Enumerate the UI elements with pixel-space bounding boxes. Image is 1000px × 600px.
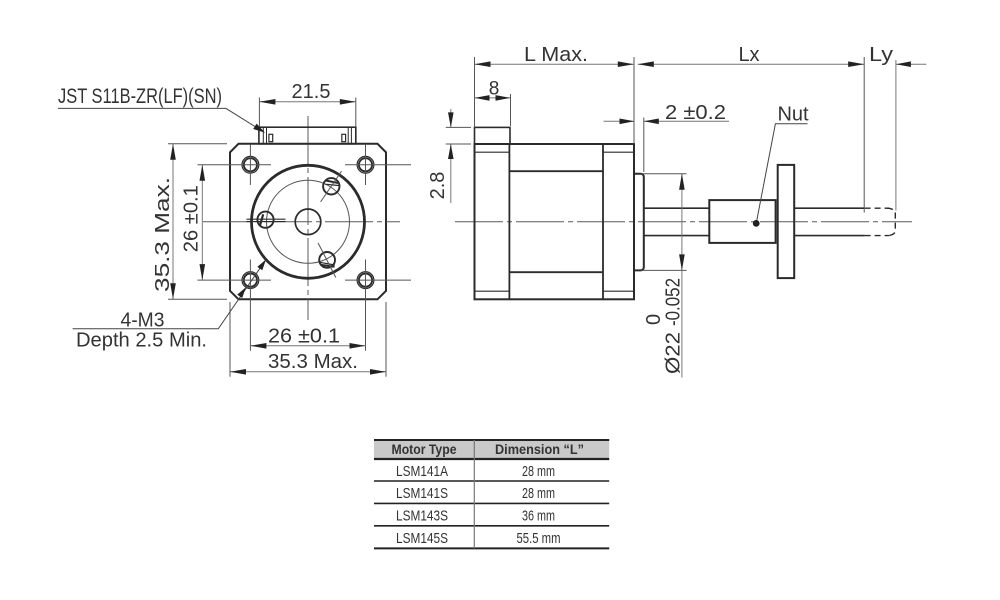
crosshair bottom-left hole [198,260,272,351]
screw head left [257,212,273,228]
pilot boss circle (thick) [252,165,365,278]
connector pin right [342,134,346,141]
front plate outline with chamfered corners [230,144,386,299]
screw slot bottom [320,262,335,265]
nut body [709,200,775,243]
svg-text:28 mm: 28 mm [522,463,555,480]
svg-text:35.3 Max.: 35.3 Max. [268,351,358,373]
svg-text:LSM145S: LSM145S [396,530,448,547]
nut flange [778,165,795,278]
dimension 2 ±0.2 [604,120,730,122]
svg-text:Dimension “L”: Dimension “L” [495,442,584,457]
screw bolt circle (thin) [267,180,350,263]
dashed screw end cap [887,208,895,235]
dimension Lx [638,63,864,65]
dimension 8 [475,97,511,99]
svg-text:0: 0 [643,314,665,325]
header separator [374,458,609,460]
dimension 35.3 Max. (left) [172,144,174,299]
horizontal centerline (side view) [455,221,912,223]
svg-text:Nut: Nut [777,104,809,126]
rear cap line [508,144,510,299]
dimension 26 ±0.1 (left) [201,165,203,280]
crosshair bottom-right hole [345,260,411,351]
pilot boss (side view) [634,174,644,271]
svg-text:LSM141S: LSM141S [396,485,448,502]
connector pin left [269,134,273,141]
svg-text:2.8: 2.8 [427,172,449,200]
dimension Ly [896,63,927,65]
connector block (side view) [475,127,511,144]
svg-text:LSM141A: LSM141A [396,463,448,480]
svg-text:26 ±0.1: 26 ±0.1 [181,185,203,252]
screw slot left [247,218,286,220]
extension lines (top dims) [474,57,476,127]
svg-text:Motor Type: Motor Type [392,442,457,457]
svg-text:26 ±0.1: 26 ±0.1 [268,326,340,348]
svg-text:21.5: 21.5 [292,81,331,103]
screw radial line top-right [321,171,342,202]
mounting hole top-left [242,156,259,173]
cap chamfer lines [475,152,635,291]
table top border [374,439,609,441]
mounting hole bottom-left [242,272,259,289]
dashed screw extension [865,208,890,235]
screw head bottom [319,252,335,268]
svg-text:8: 8 [489,79,500,100]
table bottom border [374,547,609,549]
svg-text:LSM143S: LSM143S [396,508,448,525]
svg-text:36 mm: 36 mm [522,508,555,525]
horizontal centerline (front view) [203,221,400,223]
svg-text:JST S11B-ZR(LF)(SN): JST S11B-ZR(LF)(SN) [58,85,222,108]
svg-text:L Max.: L Max. [524,44,588,66]
dimension 2.8 [450,109,452,203]
screw slot top-right [326,181,339,184]
screw head top-right [323,178,339,194]
svg-text:Depth 2.5 Min.: Depth 2.5 Min. [76,330,207,352]
row separators [374,480,609,482]
mounting hole top-right [357,156,374,173]
dimension ⌀22 0/-0.052 [681,174,683,378]
dimension 26 ±0.1 (bottom) [250,345,365,347]
header background [374,440,609,459]
middle body lines [509,171,603,272]
screw radial line bottom [318,243,336,278]
dimension 21.5 (top) [259,101,355,103]
column divider [473,440,475,548]
svg-text:Ly: Ly [869,44,893,66]
center shaft hole [295,209,321,235]
front cap line [602,144,604,299]
svg-text:35.3 Max.: 35.3 Max. [152,177,174,292]
svg-text:-0.052: -0.052 [663,278,685,326]
svg-text:4-M3: 4-M3 [121,310,165,332]
crosshair top-left hole [198,145,272,186]
vertical centerline (front view) [307,116,309,320]
crosshair top-right hole [345,145,411,186]
lead screw between boss and nut [644,208,710,235]
connector body (top, front view) [259,127,356,144]
dimension L Max. [475,63,635,65]
connector inner lines right [348,127,351,144]
svg-text:Lx: Lx [738,44,759,66]
connector inner lines left [263,127,266,144]
mounting hole bottom-right [357,272,374,289]
svg-text:Ø22: Ø22 [663,332,685,374]
svg-text:2 ±0.2: 2 ±0.2 [665,102,726,124]
lead screw right of flange [794,208,864,235]
svg-text:28 mm: 28 mm [522,485,555,502]
motor body outline [475,144,635,299]
svg-text:55.5 mm: 55.5 mm [517,530,561,547]
dimension 35.3 Max. (bottom) [230,371,386,373]
